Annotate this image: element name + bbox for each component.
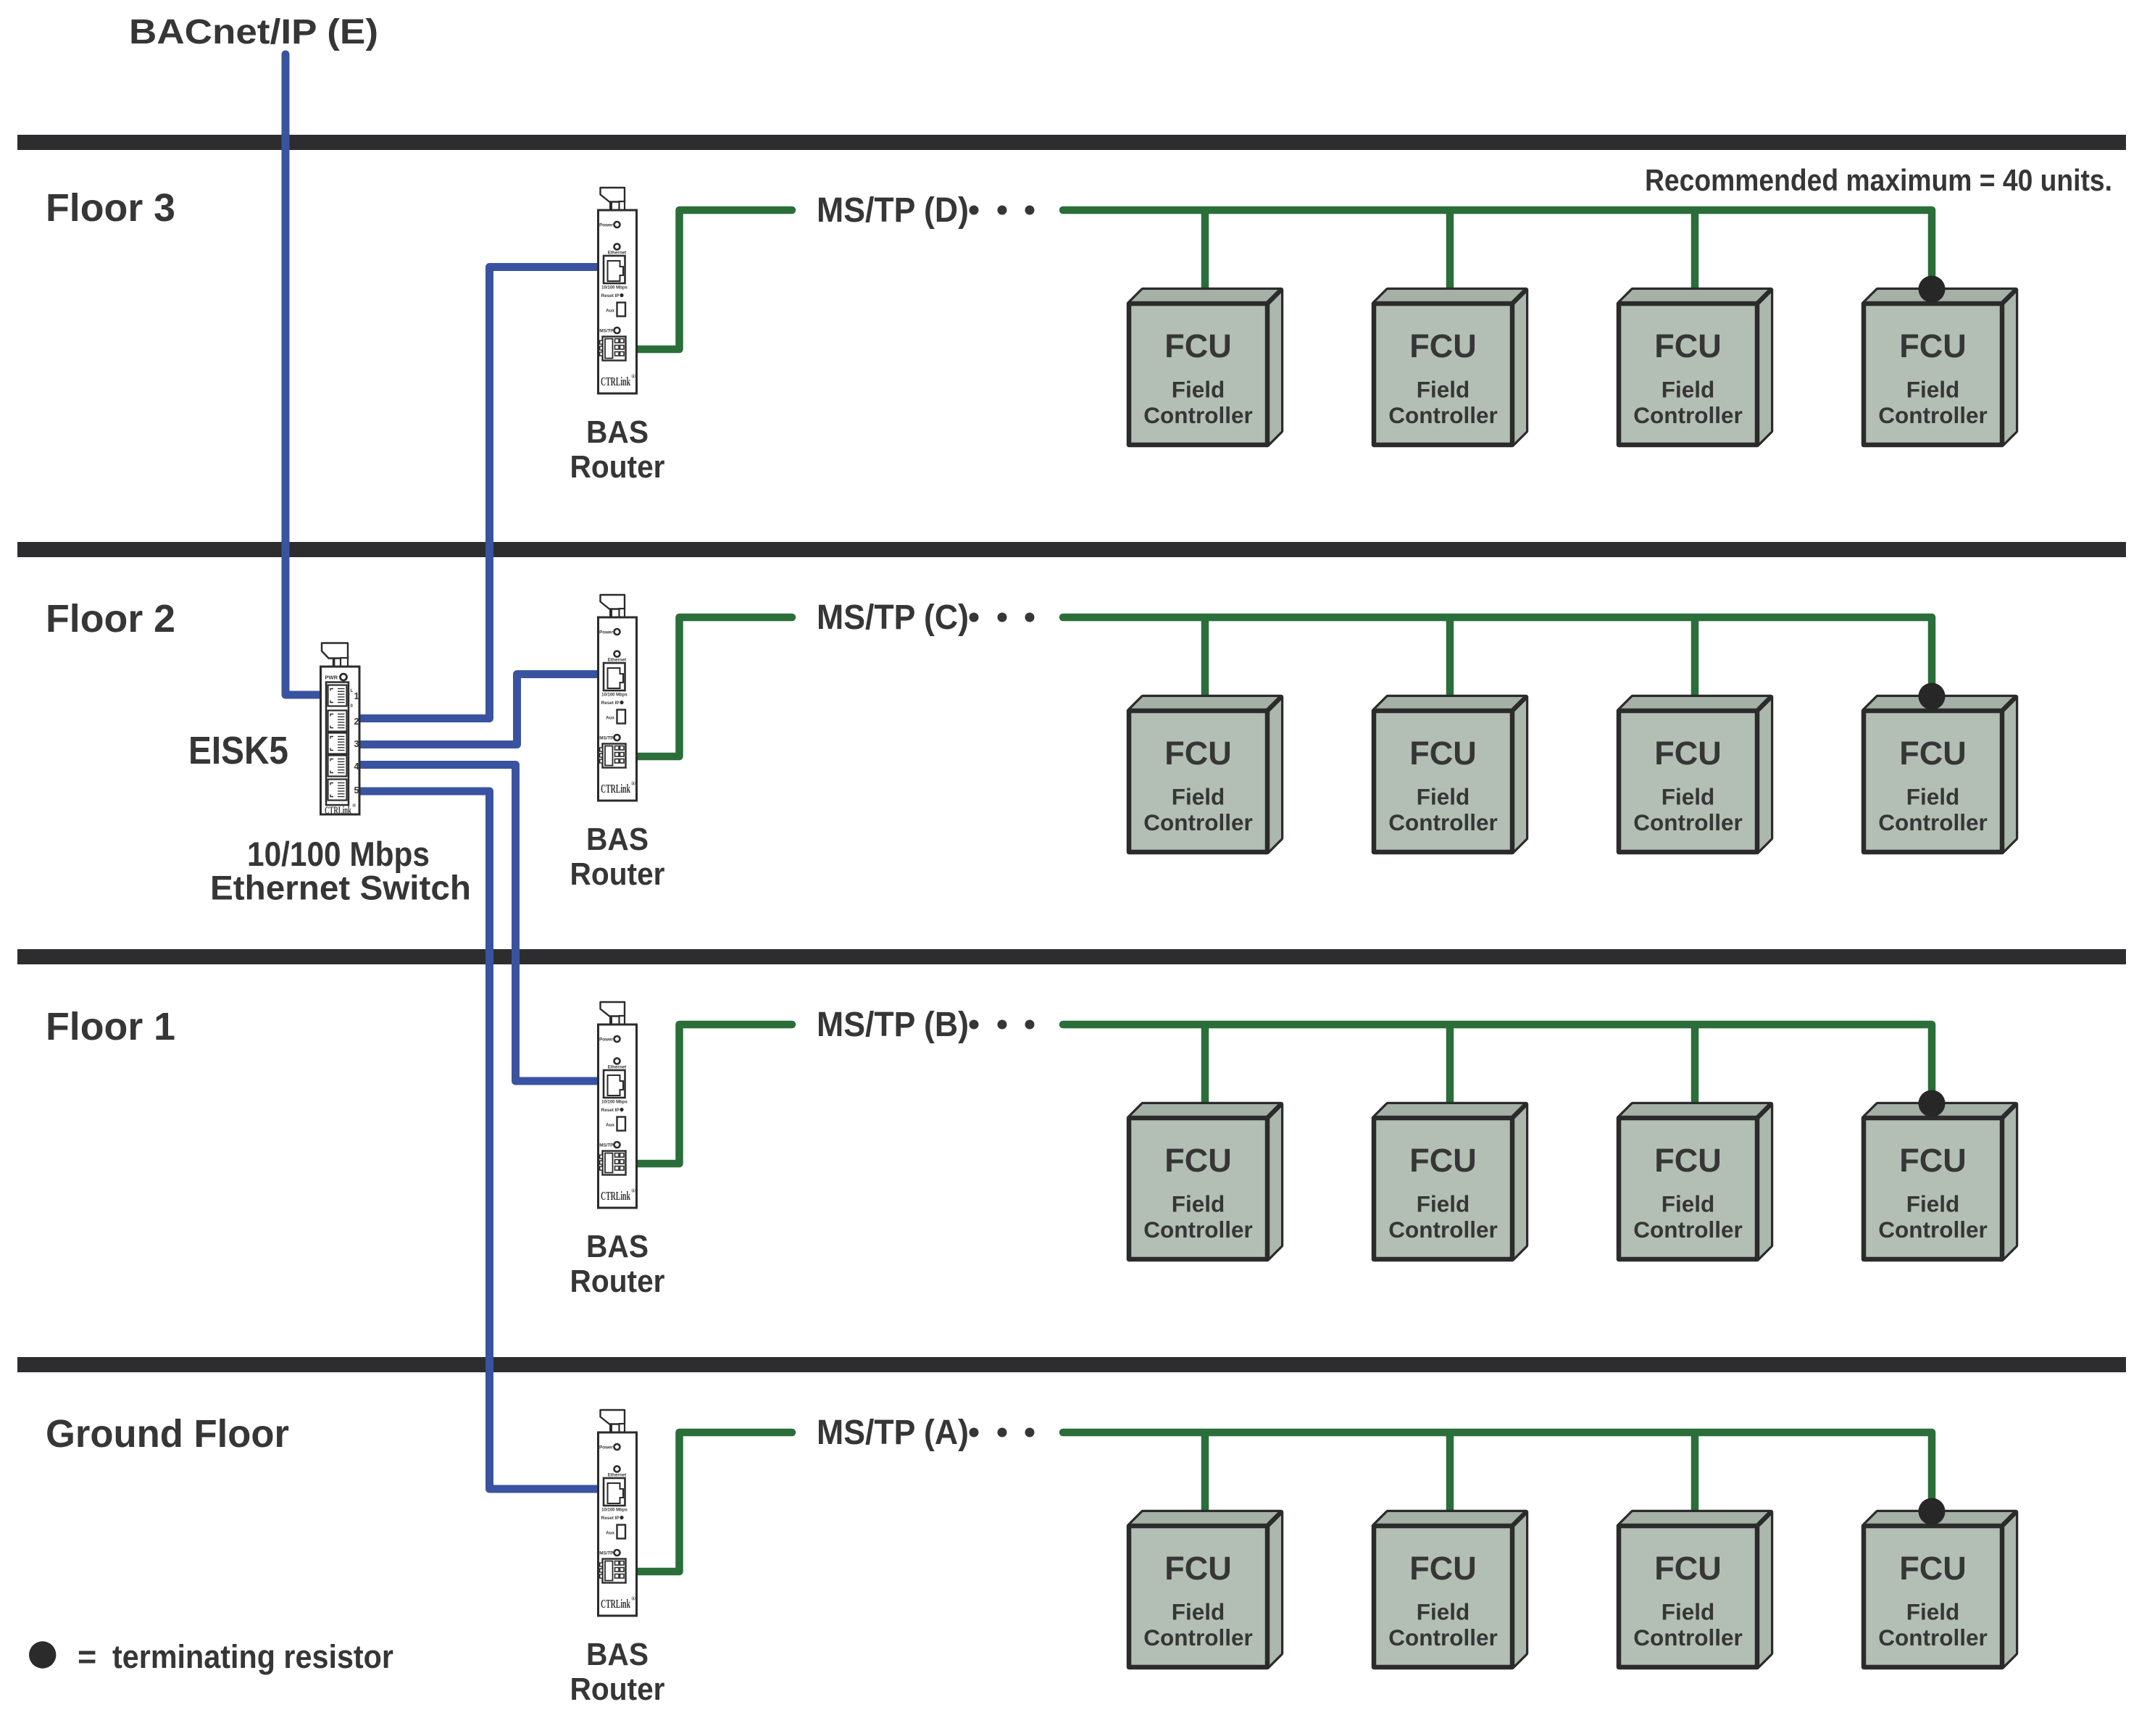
svg-text:BAS: BAS: [586, 414, 649, 450]
wire: MS/TP (D) trunk right segment with end drop (Floor 3): [1063, 210, 1932, 283]
MS/TP continuation dots (Floor 1): [970, 1020, 1035, 1030]
svg-text:Floor 1: Floor 1: [46, 1005, 175, 1048]
svg-text:5: 5: [354, 785, 359, 796]
svg-text:EISK5: EISK5: [188, 729, 288, 772]
svg-text:MS/TP (C): MS/TP (C): [817, 598, 969, 637]
wire: MS/TP (B) trunk right segment with end drop (Floor 1): [1063, 1025, 1932, 1098]
wire: MS/TP (D) bus from BAS Router up to trunk (Floor 3): [635, 210, 792, 349]
FCU Field Controller box 4 (Floor 1): [1864, 1104, 2016, 1259]
svg-text:3: 3: [354, 739, 359, 749]
wire: MS/TP (B) bus from BAS Router up to trunk (Floor 1): [635, 1025, 792, 1164]
wire: MS/TP drop 2 to FCU (Floor 2): [1446, 620, 1454, 709]
FCU Field Controller box 3 (Floor 3): [1619, 290, 1771, 445]
terminating resistor dot (Floor 1): [1919, 1090, 1946, 1117]
svg-text:Ethernet Switch: Ethernet Switch: [210, 869, 471, 907]
svg-text:BACnet/IP (E): BACnet/IP (E): [129, 13, 378, 51]
FCU Field Controller box 3 (Floor 2): [1619, 697, 1771, 852]
wire: MS/TP (A) bus from BAS Router up to trunk (Ground Floor): [635, 1432, 792, 1572]
svg-text:MS/TP (A): MS/TP (A): [817, 1414, 969, 1452]
svg-text:CTRLink: CTRLink: [325, 805, 351, 817]
FCU Field Controller box 3 (Ground Floor): [1619, 1512, 1771, 1667]
svg-text:Ground Floor: Ground Floor: [46, 1412, 289, 1456]
svg-text:BAS: BAS: [586, 1637, 649, 1672]
legend: terminating resistor dot: [29, 1641, 56, 1668]
wire: MS/TP (A) trunk right segment with end drop (Ground Floor): [1063, 1432, 1932, 1506]
wire: switch port 5 down to Ground Floor BAS Router: [358, 791, 599, 1489]
BAS Router device (Floor 2): [599, 595, 637, 801]
svg-text:Router: Router: [570, 449, 665, 485]
wire: MS/TP (C) bus from BAS Router up to trunk (Floor 2): [635, 617, 792, 756]
svg-text:BAS: BAS: [586, 822, 649, 857]
FCU Field Controller box 1 (Floor 1): [1129, 1104, 1281, 1259]
FCU Field Controller box 3 (Floor 1): [1619, 1104, 1771, 1259]
switch RJ45 port 5: [328, 780, 347, 801]
svg-text:Floor 2: Floor 2: [46, 597, 175, 640]
BAS Router device (Floor 3): [599, 188, 637, 393]
svg-text:Router: Router: [570, 1264, 665, 1299]
svg-text:BAS: BAS: [586, 1229, 649, 1264]
svg-text:Floor 3: Floor 3: [46, 186, 175, 230]
MS/TP continuation dots (Ground Floor): [970, 1428, 1035, 1437]
wire: MS/TP drop 2 to FCU (Ground Floor): [1446, 1435, 1454, 1524]
FCU Field Controller box 4 (Floor 2): [1864, 697, 2016, 852]
svg-text:Router: Router: [570, 1672, 665, 1707]
svg-text:Router: Router: [570, 856, 665, 892]
wire: switch port 2 up to Floor 3 BAS Router: [358, 267, 599, 719]
wire: switch port 3 to Floor 2 BAS Router: [358, 675, 599, 745]
wire: MS/TP drop 2 to FCU (Floor 1): [1446, 1027, 1454, 1116]
svg-text:L: L: [351, 689, 354, 693]
svg-text:10/100 Mbps: 10/100 Mbps: [247, 835, 430, 873]
terminating resistor dot (Floor 2): [1919, 683, 1946, 710]
wire: MS/TP drop 1 to FCU (Floor 3): [1201, 213, 1209, 301]
wire: MS/TP drop 1 to FCU (Floor 2): [1201, 620, 1209, 709]
switch RJ45 port 1: [328, 685, 347, 706]
wire: MS/TP drop 3 to FCU (Floor 1): [1691, 1027, 1699, 1116]
BAS Router device (Floor 1): [599, 1002, 637, 1208]
svg-text:PWR: PWR: [325, 675, 338, 681]
wire: MS/TP drop 3 to FCU (Floor 2): [1691, 620, 1699, 709]
FCU Field Controller box 4 (Ground Floor): [1864, 1512, 2016, 1667]
switch RJ45 port 4: [328, 756, 347, 777]
wire: MS/TP (C) trunk right segment with end drop (Floor 2): [1063, 617, 1932, 690]
svg-text:Recommended maximum = 40 units: Recommended maximum = 40 units.: [1645, 163, 2112, 197]
svg-text:MS/TP (D): MS/TP (D): [817, 191, 969, 230]
floor slab bar 4: [17, 1357, 2126, 1372]
FCU Field Controller box 2 (Floor 3): [1374, 290, 1526, 445]
BAS Router device (Ground Floor): [599, 1410, 637, 1616]
EISK5 Ethernet switch device: [321, 643, 360, 817]
floor slab bar 3: [17, 949, 2126, 964]
svg-text:4: 4: [354, 761, 359, 772]
switch RJ45 port 2: [328, 711, 347, 732]
floor slab bar 1: [17, 135, 2126, 150]
svg-text:®: ®: [352, 803, 357, 809]
svg-text:1: 1: [354, 691, 359, 701]
svg-text:2: 2: [354, 717, 359, 727]
FCU Field Controller box 2 (Floor 1): [1374, 1104, 1526, 1259]
FCU Field Controller box 2 (Floor 2): [1374, 697, 1526, 852]
FCU Field Controller box 1 (Floor 2): [1129, 697, 1281, 852]
switch PWR LED: [341, 674, 347, 680]
svg-text:terminating resistor: terminating resistor: [112, 1638, 393, 1675]
FCU Field Controller box 4 (Floor 3): [1864, 290, 2016, 445]
floor slab bar 2: [17, 542, 2126, 557]
switch RJ45 port 3: [328, 733, 347, 754]
terminating resistor dot (Ground Floor): [1919, 1498, 1946, 1525]
svg-text:MS/TP (B): MS/TP (B): [817, 1006, 969, 1044]
wire: MS/TP drop 2 to FCU (Floor 3): [1446, 213, 1454, 301]
svg-text:=: =: [78, 1638, 96, 1675]
wire: BACnet/IP (E) riser down to switch port 1: [285, 54, 322, 695]
terminating resistor dot (Floor 3): [1919, 276, 1946, 303]
wire: MS/TP drop 3 to FCU (Floor 3): [1691, 213, 1699, 301]
FCU Field Controller box 1 (Ground Floor): [1129, 1512, 1281, 1667]
wire: MS/TP drop 3 to FCU (Ground Floor): [1691, 1435, 1699, 1524]
MS/TP continuation dots (Floor 3): [970, 206, 1035, 215]
FCU Field Controller box 2 (Ground Floor): [1374, 1512, 1526, 1667]
wire: MS/TP drop 1 to FCU (Ground Floor): [1201, 1435, 1209, 1524]
wire: switch port 4 down to Floor 1 BAS Router: [358, 765, 599, 1082]
MS/TP continuation dots (Floor 2): [970, 613, 1035, 622]
wire: MS/TP drop 1 to FCU (Floor 1): [1201, 1027, 1209, 1116]
FCU Field Controller box 1 (Floor 3): [1129, 290, 1281, 445]
